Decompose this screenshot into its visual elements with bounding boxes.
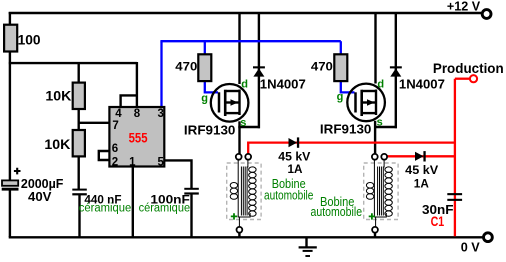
svg-text:470: 470	[175, 62, 197, 74]
svg-text:d: d	[377, 79, 384, 91]
svg-text:g: g	[201, 92, 208, 104]
svg-text:automobile: automobile	[264, 188, 314, 202]
svg-text:3: 3	[158, 108, 164, 120]
svg-text:45 kV: 45 kV	[278, 152, 310, 164]
svg-text:g: g	[337, 91, 344, 103]
svg-text:10K: 10K	[44, 137, 70, 152]
svg-text:C1: C1	[431, 214, 445, 229]
svg-text:2: 2	[112, 157, 118, 169]
svg-text:45 kV: 45 kV	[405, 165, 438, 177]
svg-text:7: 7	[112, 120, 118, 132]
svg-text:4: 4	[115, 108, 122, 120]
svg-text:555: 555	[129, 131, 148, 146]
svg-text:1A: 1A	[414, 178, 429, 190]
svg-text:+12 V: +12 V	[447, 0, 481, 13]
svg-text:d: d	[241, 78, 248, 90]
svg-text:1A: 1A	[288, 164, 303, 176]
svg-text:1N4007: 1N4007	[399, 78, 445, 92]
svg-text:1: 1	[129, 157, 136, 169]
svg-text:IRF9130: IRF9130	[184, 122, 236, 137]
svg-text:s: s	[240, 117, 246, 129]
svg-text:0 V: 0 V	[461, 239, 480, 254]
svg-text:1N4007: 1N4007	[260, 78, 306, 92]
svg-text:10K: 10K	[45, 89, 71, 104]
svg-text:automobile: automobile	[311, 205, 363, 219]
svg-text:40V: 40V	[28, 189, 52, 204]
svg-text:5: 5	[158, 157, 165, 169]
svg-text:100: 100	[18, 32, 41, 47]
svg-text:IRF9130: IRF9130	[320, 122, 372, 137]
svg-text:470: 470	[311, 62, 333, 74]
svg-text:céramique: céramique	[139, 203, 191, 215]
svg-text:s: s	[377, 117, 383, 129]
svg-text:céramique: céramique	[79, 203, 132, 215]
svg-text:Production: Production	[433, 60, 504, 76]
svg-text:6: 6	[112, 143, 118, 155]
svg-text:8: 8	[134, 108, 141, 120]
